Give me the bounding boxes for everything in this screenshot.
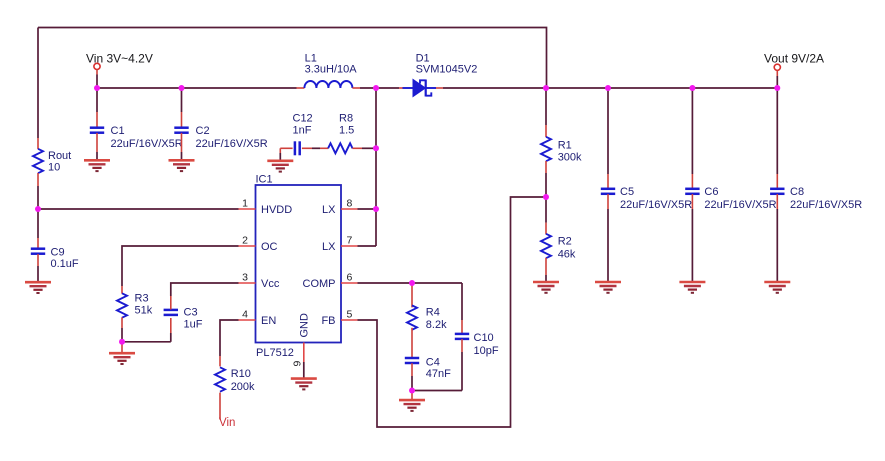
pin 4 EN: [239, 319, 256, 321]
ground: [399, 400, 425, 411]
node Vout terminal: [774, 64, 780, 70]
node junction HVDD/left rail: [35, 206, 41, 212]
resistor R3: [121, 286, 123, 294]
ground: [109, 353, 135, 364]
svg-text:C4: C4: [426, 357, 440, 369]
ground: [679, 282, 705, 293]
wire EN net: [220, 320, 239, 356]
svg-text:R8: R8: [339, 113, 353, 125]
wire left frame lower: [37, 186, 39, 209]
svg-text:7: 7: [347, 235, 353, 247]
svg-text:4: 4: [242, 309, 248, 321]
wire C12 ground stub: [279, 148, 281, 153]
node junction FB divider: [543, 194, 549, 200]
wire pin7 to LX node: [358, 245, 377, 247]
svg-text:C8: C8: [790, 186, 804, 198]
pin 5 FB: [341, 319, 358, 321]
svg-text:C2: C2: [196, 125, 210, 137]
svg-text:300k: 300k: [558, 152, 582, 164]
svg-text:22uF/16V/X5R: 22uF/16V/X5R: [111, 138, 183, 150]
svg-text:Vcc: Vcc: [261, 278, 280, 290]
svg-text:LX: LX: [322, 241, 336, 253]
svg-text:PL7512: PL7512: [256, 347, 294, 359]
node junction snubber/LX: [373, 145, 379, 151]
capacitor C1: [96, 88, 98, 112]
node junction pin8/LX: [373, 206, 379, 212]
wire R4 ground stub: [411, 391, 413, 400]
node junction C5/bus: [605, 85, 611, 91]
resistor R8: [312, 147, 320, 149]
pin 1 HVDD: [239, 208, 256, 210]
wire Vout drop: [776, 71, 778, 76]
capacitor C6: [691, 88, 693, 174]
svg-text:FB: FB: [321, 315, 335, 327]
svg-text:Vout 9V/2A: Vout 9V/2A: [764, 52, 824, 66]
node junction Vout/bus: [774, 85, 780, 91]
svg-text:Rout: Rout: [48, 150, 71, 162]
capacitor C4: [405, 358, 419, 363]
svg-text:8: 8: [347, 198, 353, 210]
node junction R1/bus: [543, 85, 549, 91]
svg-text:0.1uF: 0.1uF: [51, 258, 79, 270]
ground: [764, 282, 790, 293]
wire bus L1 to D1: [360, 87, 399, 89]
wire OC net: [122, 246, 239, 286]
svg-text:COMP: COMP: [303, 278, 336, 290]
pin 8 LX: [341, 208, 358, 210]
svg-text:51k: 51k: [135, 305, 153, 317]
wire Vin drop: [96, 70, 98, 75]
svg-text:C10: C10: [474, 332, 494, 344]
ground: [291, 379, 317, 390]
wire bus D1 to Vout: [443, 87, 777, 89]
svg-text:22uF/16V/X5R: 22uF/16V/X5R: [790, 199, 862, 211]
resistor R1: [545, 88, 547, 125]
svg-text:22uF/16V/X5R: 22uF/16V/X5R: [704, 199, 776, 211]
resistor R2: [545, 197, 547, 223]
pin 7 LX: [341, 245, 358, 247]
svg-text:IC1: IC1: [256, 173, 273, 185]
capacitor C5: [607, 88, 609, 174]
svg-text:10: 10: [48, 162, 60, 174]
svg-text:SVM1045V2: SVM1045V2: [416, 64, 478, 76]
svg-text:GND: GND: [299, 313, 311, 338]
wire left frame: [37, 28, 39, 139]
svg-text:C6: C6: [704, 186, 718, 198]
pin 2 OC: [239, 245, 256, 247]
capacitor C3: [170, 333, 172, 342]
ground: [84, 160, 110, 171]
diode D1: [399, 87, 403, 89]
svg-text:3.3uH/10A: 3.3uH/10A: [305, 64, 358, 76]
node junction LX/bus: [373, 85, 379, 91]
ground: [595, 282, 621, 293]
pin 3 Vcc: [239, 282, 256, 284]
svg-text:C12: C12: [293, 113, 313, 125]
svg-text:R2: R2: [558, 236, 572, 248]
svg-text:HVDD: HVDD: [261, 204, 292, 216]
svg-text:6: 6: [347, 272, 353, 284]
node junction C4/C10 ground: [409, 388, 415, 394]
svg-text:R1: R1: [558, 140, 572, 152]
wire LX vertical: [375, 88, 377, 246]
svg-text:R4: R4: [426, 307, 440, 319]
node junction R3/C3 ground: [119, 339, 125, 345]
node junction C2/bus: [179, 85, 185, 91]
capacitor C8: [776, 88, 778, 174]
svg-text:Vin: Vin: [219, 417, 235, 429]
pin 6 COMP: [341, 282, 358, 284]
svg-text:9: 9: [292, 361, 304, 367]
svg-text:1.5: 1.5: [339, 125, 354, 137]
svg-text:EN: EN: [261, 315, 276, 327]
svg-text:10pF: 10pF: [474, 345, 499, 357]
node junction COMP/R4/C10: [409, 280, 415, 286]
svg-text:22uF/16V/X5R: 22uF/16V/X5R: [620, 199, 692, 211]
svg-text:1uF: 1uF: [184, 319, 203, 331]
capacitor C2: [181, 88, 183, 112]
svg-text:5: 5: [347, 309, 353, 321]
svg-text:R10: R10: [231, 368, 251, 380]
wire HVDD: [38, 208, 239, 210]
wire FB net: [358, 197, 547, 427]
svg-text:8.2k: 8.2k: [426, 319, 447, 331]
svg-text:1: 1: [242, 198, 248, 210]
ground: [169, 160, 195, 171]
node junction Vin/bus: [94, 85, 100, 91]
svg-text:47nF: 47nF: [426, 368, 451, 380]
capacitor C12: [280, 147, 292, 149]
resistor R4: [411, 283, 413, 307]
capacitor C9: [37, 209, 39, 238]
svg-text:R3: R3: [135, 293, 149, 305]
svg-text:3: 3: [242, 272, 248, 284]
node Vin terminal: [94, 63, 100, 69]
wire R3 C3 bottom: [122, 341, 171, 343]
wire top frame: [38, 28, 547, 89]
svg-text:46k: 46k: [558, 249, 576, 261]
svg-text:OC: OC: [261, 241, 278, 253]
svg-text:1nF: 1nF: [293, 125, 312, 137]
svg-text:200k: 200k: [231, 381, 255, 393]
wire main bus: [97, 87, 297, 89]
wire pin8 to LX node: [358, 208, 377, 210]
svg-text:C9: C9: [51, 247, 65, 259]
resistor R10: [219, 356, 221, 366]
svg-text:C5: C5: [620, 186, 634, 198]
ground: [267, 161, 293, 172]
inductor L1: [297, 87, 305, 89]
svg-text:LX: LX: [322, 204, 336, 216]
svg-text:C1: C1: [111, 125, 125, 137]
ground: [533, 282, 559, 293]
wire COMP net: [358, 282, 413, 284]
svg-text:22uF/16V/X5R: 22uF/16V/X5R: [196, 138, 268, 150]
node junction C6/bus: [689, 85, 695, 91]
op-amp IC1 box: [256, 185, 342, 343]
ground: [25, 282, 51, 293]
capacitor C10: [461, 320, 463, 333]
svg-text:Vin 3V~4.2V: Vin 3V~4.2V: [86, 52, 153, 66]
resistor Rout: [37, 138, 39, 149]
svg-text:C3: C3: [184, 307, 198, 319]
svg-text:2: 2: [242, 235, 248, 247]
